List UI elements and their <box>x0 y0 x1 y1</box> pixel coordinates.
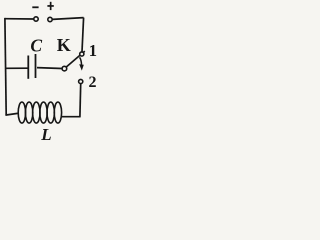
wire: top-right horizontal from plus terminal to corner <box>52 18 83 20</box>
arrow: arrowhead of switch throw <box>79 64 84 70</box>
node: switch contact 1 circle <box>80 52 84 56</box>
wire: contact 2 down to bottom-right corner <box>79 84 82 117</box>
label: minus sign <box>32 6 38 8</box>
wire: left vertical <box>5 18 6 115</box>
svg-text:C: C <box>30 36 42 56</box>
wire: top-left horizontal from corner to minus terminal <box>5 18 34 20</box>
capacitor C left wire <box>6 67 28 69</box>
terminal: minus terminal circle <box>34 17 38 21</box>
svg-text:1: 1 <box>89 41 97 60</box>
label: plus sign <box>47 2 53 10</box>
wire: bottom-left horizontal to coil <box>5 113 17 115</box>
inductor L coil loops <box>18 102 61 123</box>
arrow: switch throw direction arc <box>80 57 82 65</box>
wire: capacitor to switch pivot <box>37 67 62 70</box>
switch K arm from pivot to contact 1 <box>66 51 84 67</box>
wire: right vertical down to contact 1 <box>82 18 84 52</box>
svg-text:L: L <box>40 125 51 144</box>
node: switch contact 2 circle <box>79 79 83 83</box>
capacitor C left plate <box>27 56 29 79</box>
svg-text:2: 2 <box>89 74 97 91</box>
wire: bottom-right horizontal to coil <box>61 116 81 118</box>
capacitor C right plate <box>35 54 37 78</box>
svg-text:K: K <box>57 35 71 55</box>
node: switch K pivot circle <box>62 66 67 71</box>
terminal: plus terminal circle <box>48 17 52 21</box>
